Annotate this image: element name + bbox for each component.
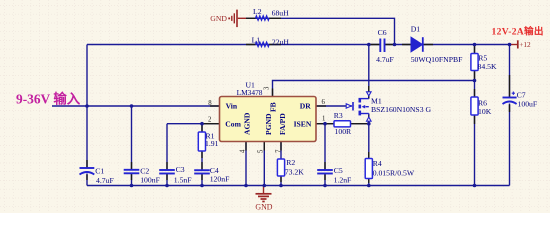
- svg-text:C1: C1: [95, 167, 104, 176]
- svg-text:4.7uF: 4.7uF: [376, 55, 394, 64]
- svg-text:FB: FB: [268, 102, 277, 112]
- svg-text:FA/PD: FA/PD: [278, 113, 287, 135]
- svg-text:4.7uF: 4.7uF: [96, 176, 114, 185]
- svg-text:C6: C6: [378, 28, 387, 37]
- svg-text:LM3478: LM3478: [237, 88, 263, 97]
- svg-text:3: 3: [264, 86, 271, 90]
- svg-text:100nF: 100nF: [140, 175, 160, 184]
- svg-text:DR: DR: [300, 102, 311, 111]
- svg-text:9-36V 输入: 9-36V 输入: [16, 91, 81, 107]
- svg-text:Com: Com: [225, 120, 241, 129]
- svg-text:4: 4: [240, 149, 247, 153]
- svg-text:84.5K: 84.5K: [478, 62, 497, 71]
- svg-text:BSZ160N10NS3 G: BSZ160N10NS3 G: [371, 105, 431, 114]
- svg-text:D1: D1: [411, 25, 421, 34]
- svg-text:Vin: Vin: [226, 102, 238, 111]
- svg-text:120nF: 120nF: [210, 175, 230, 184]
- svg-text:AGND: AGND: [242, 112, 251, 135]
- svg-text:C3: C3: [176, 165, 185, 174]
- svg-text:C2: C2: [140, 167, 149, 176]
- svg-text:12V-2A输出: 12V-2A输出: [492, 25, 544, 37]
- svg-text:1.2nF: 1.2nF: [334, 176, 352, 185]
- svg-text:10K: 10K: [478, 107, 492, 116]
- svg-text:C7: C7: [517, 90, 526, 99]
- svg-text:8: 8: [208, 100, 212, 107]
- svg-text:5: 5: [258, 149, 265, 153]
- svg-text:C5: C5: [334, 166, 343, 175]
- svg-text:2: 2: [208, 117, 212, 124]
- svg-text:7: 7: [276, 149, 283, 153]
- svg-text:73.2K: 73.2K: [285, 167, 304, 176]
- svg-text:L2: L2: [253, 7, 262, 16]
- svg-text:R4: R4: [373, 159, 382, 168]
- svg-text:R2: R2: [286, 158, 295, 167]
- svg-text:1.91: 1.91: [205, 139, 219, 148]
- svg-text:0.015R/0.5W: 0.015R/0.5W: [373, 168, 415, 177]
- svg-text:68uH: 68uH: [272, 8, 290, 17]
- svg-text:6: 6: [322, 99, 326, 106]
- svg-text:GND: GND: [255, 203, 272, 212]
- svg-text:PGND: PGND: [264, 113, 273, 135]
- svg-text:M1: M1: [371, 97, 382, 106]
- svg-text:ISEN: ISEN: [294, 120, 312, 129]
- svg-text:L1: L1: [252, 35, 261, 44]
- svg-text:100R: 100R: [335, 127, 353, 136]
- svg-text:GND: GND: [210, 14, 227, 23]
- svg-text:22uH: 22uH: [272, 38, 290, 47]
- svg-text:R3: R3: [334, 111, 343, 120]
- svg-text:1: 1: [322, 116, 325, 123]
- svg-text:+12: +12: [519, 40, 531, 49]
- svg-text:C4: C4: [210, 166, 219, 175]
- svg-text:1.5nF: 1.5nF: [174, 176, 192, 185]
- svg-text:100uF: 100uF: [518, 99, 538, 108]
- svg-text:50WQ10FNPBF: 50WQ10FNPBF: [411, 55, 463, 64]
